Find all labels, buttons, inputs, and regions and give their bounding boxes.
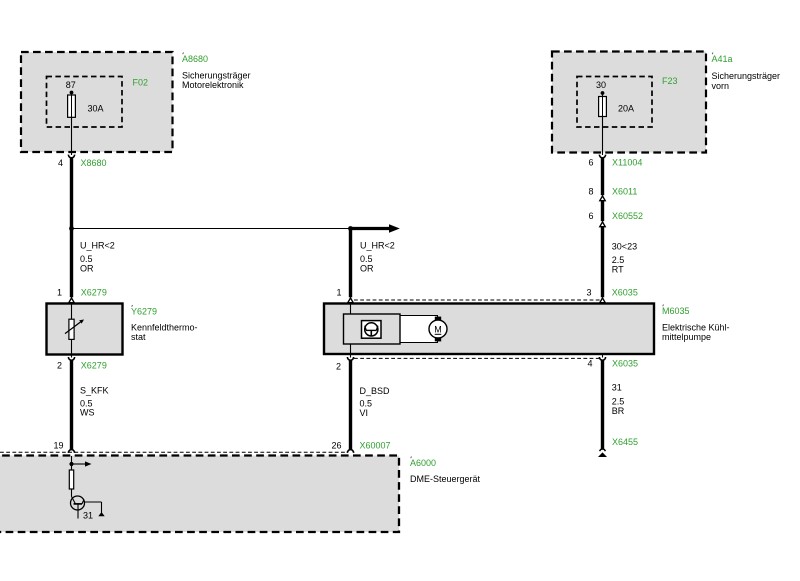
svg-text:31: 31 [612,383,622,393]
svg-text:DME-Steuergerät: DME-Steuergerät [410,474,481,484]
svg-text:4: 4 [58,158,63,168]
svg-text:20A: 20A [618,104,634,114]
svg-text:VI: VI [360,408,369,418]
svg-text:OR: OR [360,264,374,274]
svg-text:OR: OR [80,264,94,274]
svg-text:X6011: X6011 [612,187,637,197]
svg-text:Elektrische Kühl-: Elektrische Kühl- [662,323,730,333]
svg-text:1: 1 [336,288,341,298]
svg-text:2: 2 [57,361,62,371]
svg-text:M6035: M6035 [662,306,690,316]
svg-text:M: M [434,324,442,334]
svg-text:30<23: 30<23 [612,242,637,252]
svg-text:X6035: X6035 [612,288,638,298]
svg-text:3: 3 [586,288,591,298]
svg-text:4: 4 [587,359,592,369]
svg-text:F02: F02 [133,78,149,88]
svg-text:vorn: vorn [712,81,730,91]
svg-text:X60007: X60007 [360,441,391,451]
svg-text:19: 19 [53,441,63,451]
svg-text:8: 8 [588,187,593,197]
svg-text:31: 31 [83,511,93,521]
svg-text:2: 2 [336,362,341,372]
svg-text:A6000: A6000 [410,458,436,468]
svg-text:X6035: X6035 [612,359,638,369]
svg-text:mittelpumpe: mittelpumpe [662,332,711,342]
svg-text:S_KFK: S_KFK [80,386,109,396]
svg-text:Sicherungsträger: Sicherungsträger [182,71,251,81]
svg-text:26: 26 [331,441,341,451]
svg-text:87: 87 [66,80,76,90]
svg-text:X6455: X6455 [612,437,638,447]
svg-text:A8680: A8680 [182,54,208,64]
svg-text:X60552: X60552 [612,211,643,221]
svg-text:RT: RT [612,265,624,275]
svg-text:BR: BR [612,406,625,416]
svg-text:Kennfeldthermo-: Kennfeldthermo- [131,323,198,333]
svg-text:U_HR<2: U_HR<2 [360,241,395,251]
svg-text:X6279: X6279 [81,361,107,371]
svg-text:Y6279: Y6279 [131,307,157,317]
svg-text:X11004: X11004 [612,158,642,168]
svg-text:U_HR<2: U_HR<2 [80,241,115,251]
svg-text:X8680: X8680 [81,158,107,168]
svg-text:F23: F23 [662,76,678,86]
svg-text:WS: WS [80,408,95,418]
svg-text:6: 6 [588,211,593,221]
svg-text:2.5: 2.5 [612,255,625,265]
svg-text:2.5: 2.5 [612,397,625,407]
svg-text:Sicherungsträger: Sicherungsträger [712,71,781,81]
svg-text:D_BSD: D_BSD [360,386,391,396]
svg-text:30A: 30A [88,104,104,114]
svg-text:30: 30 [596,80,606,90]
svg-text:1: 1 [57,288,62,298]
svg-text:0.5: 0.5 [80,254,93,264]
svg-text:Motorelektronik: Motorelektronik [182,80,244,90]
svg-text:A41a: A41a [712,54,733,64]
svg-text:stat: stat [131,332,146,342]
svg-text:0.5: 0.5 [360,254,373,264]
svg-text:X6279: X6279 [81,288,107,298]
svg-text:6: 6 [588,158,593,168]
